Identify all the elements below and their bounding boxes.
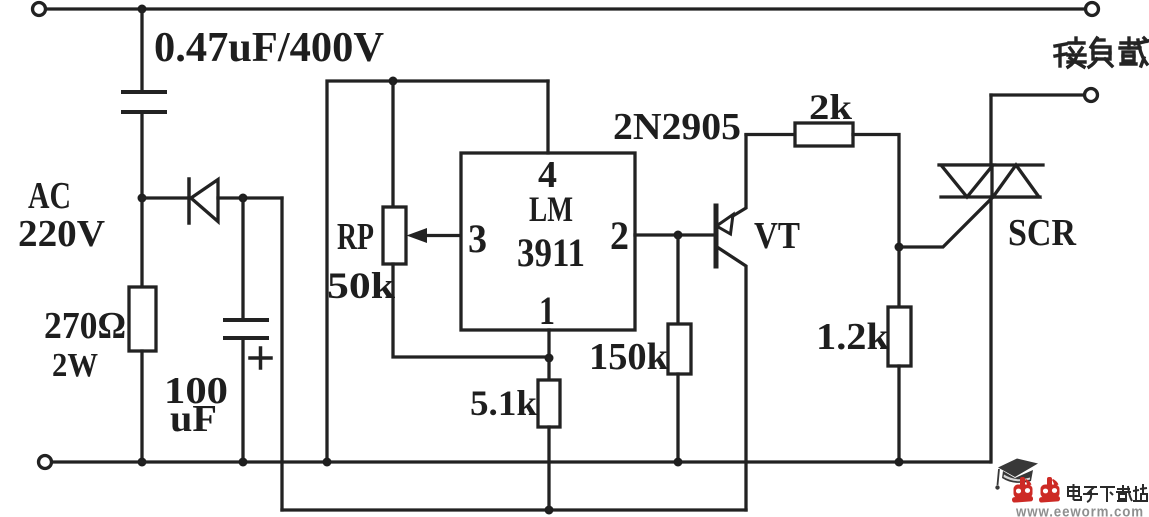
resistor R5 1.2k xyxy=(888,307,911,366)
junction bottom rail / 150k xyxy=(674,458,683,467)
wire to top-right terminal 2 xyxy=(991,93,1084,96)
terminal right mid xyxy=(1085,89,1098,102)
junction top wire / RP xyxy=(389,77,398,86)
svg-text:1: 1 xyxy=(539,288,555,333)
junction gate node xyxy=(895,243,904,252)
transistor VT emitter xyxy=(718,135,746,225)
junction bottom rail / R1 xyxy=(138,458,147,467)
triac SCR left triangle xyxy=(941,165,993,197)
svg-text:0.47uF/400V: 0.47uF/400V xyxy=(154,25,384,71)
capacitor C2 plus sign xyxy=(250,348,271,368)
terminal top-left xyxy=(33,3,46,16)
svg-text:www.eeworm.com: www.eeworm.com xyxy=(1015,504,1144,517)
junction lower wire / 5.1k xyxy=(545,506,554,515)
capacitor C1 0.47uF/400V xyxy=(123,92,165,112)
svg-text:2: 2 xyxy=(610,213,629,258)
junction diode output node xyxy=(239,194,248,203)
wire C1 bottom lead xyxy=(140,112,143,198)
wire gate to SCR xyxy=(899,197,993,247)
svg-text:AC: AC xyxy=(28,175,71,217)
transistor VT base bar xyxy=(714,206,719,266)
svg-text:LM: LM xyxy=(529,189,573,229)
wire emitter to 2k xyxy=(746,133,795,136)
wire bottom rail xyxy=(52,460,990,463)
wire SCR through segment xyxy=(990,165,993,197)
op-amp U1 LM3911 box xyxy=(461,153,635,330)
wire C2 bottom lead xyxy=(241,338,244,462)
triac SCR top bar xyxy=(939,163,1043,166)
junction bottom rail / 1.2k xyxy=(895,458,904,467)
watermark chongchong red characters xyxy=(1012,477,1060,503)
potentiometer RP 50k body xyxy=(383,207,406,264)
char zai xyxy=(1120,38,1148,66)
potentiometer RP wiper arrow xyxy=(407,228,428,243)
wire C2 top lead xyxy=(241,198,244,320)
svg-text:RP: RP xyxy=(337,216,374,258)
wire 5.1k top lead xyxy=(547,358,550,380)
wire diode to node xyxy=(218,196,282,199)
watermark dianzi xiazaizhan characters xyxy=(1068,484,1147,502)
svg-text:3: 3 xyxy=(468,216,487,261)
char jie xyxy=(1055,38,1085,67)
wire pin 2 to base xyxy=(635,233,714,236)
svg-text:270Ω: 270Ω xyxy=(44,305,126,347)
wire 2k to gate node xyxy=(853,135,899,248)
wire C1 top lead xyxy=(140,9,143,92)
resistor R1 270ohm 2W xyxy=(129,287,156,351)
wire to diode xyxy=(142,196,189,199)
transistor VT collector xyxy=(717,247,746,510)
junction bottom rail / C2 xyxy=(239,458,248,467)
svg-text:2W: 2W xyxy=(52,347,98,384)
wire left vertical of RP net xyxy=(327,81,548,462)
wire RP bottom lead to pin1 node xyxy=(393,264,549,357)
wire 150k bottom lead xyxy=(676,374,679,462)
wire 270 ohm bottom lead xyxy=(140,351,143,462)
char fu xyxy=(1089,38,1112,67)
junction pin2 node / 150k xyxy=(674,231,683,240)
resistor R2 5.1k xyxy=(538,380,560,427)
wire SCR bottom lead xyxy=(989,197,992,462)
svg-text:150k: 150k xyxy=(589,336,669,378)
diode VD cathode bar xyxy=(187,179,191,223)
triac SCR right triangle xyxy=(993,165,1039,197)
wire pin 4 lead xyxy=(546,81,549,153)
svg-text:3911: 3911 xyxy=(517,230,585,275)
junction pin1 node xyxy=(545,354,554,363)
transistor VT emitter arrow xyxy=(717,215,734,235)
wire 150k top lead xyxy=(676,235,679,324)
wire RP top lead xyxy=(391,81,394,207)
junction top rail / C1 xyxy=(138,5,147,14)
resistor R3 150k xyxy=(668,324,691,374)
svg-text:50k: 50k xyxy=(327,266,395,307)
svg-text:1.2k: 1.2k xyxy=(816,316,890,358)
resistor R4 2k xyxy=(795,123,853,146)
label jie-fu-zai (connect load) xyxy=(1055,38,1148,67)
junction bottom rail / left vertical xyxy=(323,458,332,467)
capacitor C2 100uF plates xyxy=(225,320,267,338)
watermark graduation cap xyxy=(995,459,1038,490)
svg-text:220V: 220V xyxy=(18,213,106,255)
triac SCR bottom bar xyxy=(941,195,1040,198)
node junction at diode anode xyxy=(138,194,147,203)
diode VD triangle xyxy=(191,180,218,222)
wire 5.1k bottom lead xyxy=(547,427,550,510)
wire wiper to pin 3 xyxy=(426,234,461,237)
wire 1.2k top lead xyxy=(897,247,900,307)
wire pin 1 lead xyxy=(547,330,550,358)
svg-text:VT: VT xyxy=(754,215,800,257)
wire right branch down x=282 xyxy=(280,198,283,510)
wire lower horizontal xyxy=(282,508,746,511)
wire top rail xyxy=(46,7,1085,10)
svg-text:2N2905: 2N2905 xyxy=(613,106,741,148)
wire 1.2k bottom lead xyxy=(897,366,900,462)
svg-text:uF: uF xyxy=(170,398,217,440)
wire 270 ohm top lead xyxy=(140,198,143,287)
terminal top-right xyxy=(1086,3,1099,16)
wire SCR main vertical xyxy=(989,95,992,165)
svg-text:SCR: SCR xyxy=(1008,212,1076,254)
svg-text:2k: 2k xyxy=(809,87,852,127)
terminal bottom-left xyxy=(39,456,52,469)
svg-text:5.1k: 5.1k xyxy=(470,383,537,423)
